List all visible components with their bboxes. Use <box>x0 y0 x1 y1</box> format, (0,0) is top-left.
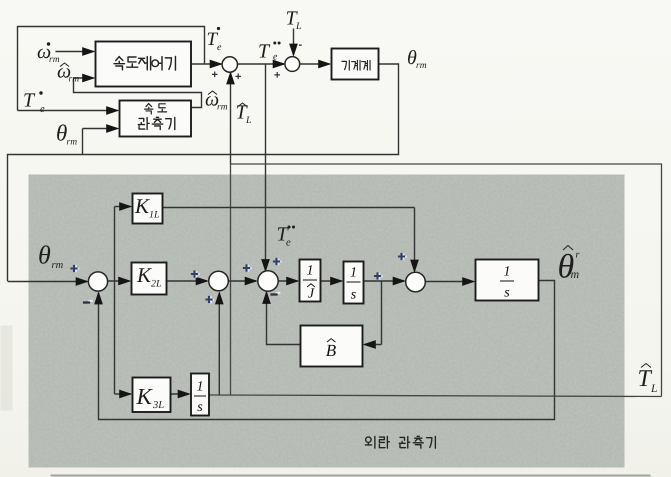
svg-text:s: s <box>351 288 357 303</box>
svg-text:L: L <box>245 115 252 126</box>
svg-text:L: L <box>650 383 657 395</box>
svg-text:L: L <box>295 21 302 32</box>
svg-text:rm: rm <box>69 75 80 85</box>
svg-text:K: K <box>136 263 152 287</box>
svg-text:T: T <box>258 41 271 63</box>
svg-text:rm: rm <box>217 103 228 113</box>
svg-text:+: + <box>235 71 241 83</box>
svg-text:+: + <box>212 69 218 81</box>
svg-text:3L: 3L <box>152 400 164 411</box>
svg-text:e: e <box>286 238 291 249</box>
svg-text:K: K <box>134 194 150 218</box>
svg-text:r: r <box>576 250 580 261</box>
svg-text:rm: rm <box>67 138 78 148</box>
svg-text:m: m <box>571 267 580 281</box>
svg-text:θ: θ <box>38 241 51 270</box>
svg-text:1: 1 <box>504 265 511 280</box>
svg-text:e: e <box>273 52 278 63</box>
svg-text:K: K <box>136 384 154 409</box>
svg-text:1: 1 <box>197 380 204 395</box>
svg-text:e: e <box>40 104 45 115</box>
svg-text:1: 1 <box>350 266 357 281</box>
svg-text:1: 1 <box>307 264 314 279</box>
svg-text:rm: rm <box>52 260 64 271</box>
svg-text:-: - <box>299 39 303 51</box>
svg-text:T: T <box>23 90 36 112</box>
svg-text:s: s <box>197 400 203 415</box>
svg-text:2L: 2L <box>151 279 162 290</box>
svg-text:e: e <box>217 42 222 53</box>
svg-text:1L: 1L <box>149 210 160 221</box>
svg-text:B: B <box>326 341 337 360</box>
svg-text:J: J <box>308 287 315 302</box>
svg-text:rm: rm <box>416 61 427 71</box>
svg-text:s: s <box>504 286 510 301</box>
svg-text:+: + <box>274 70 280 82</box>
